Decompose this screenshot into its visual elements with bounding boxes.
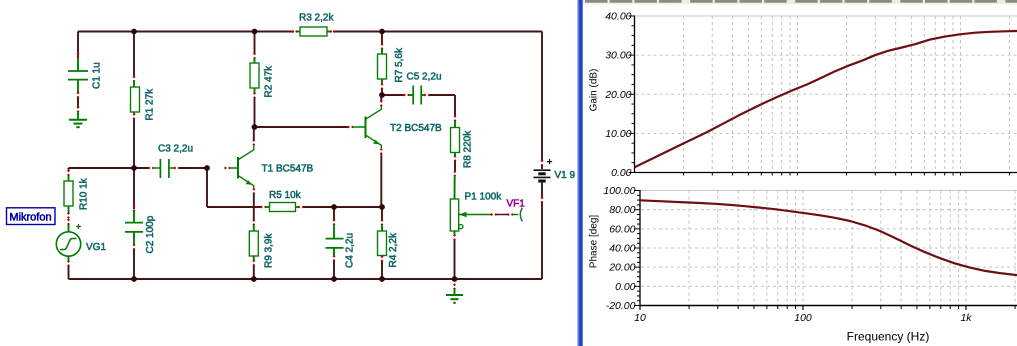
svg-text:T2 BC547B: T2 BC547B	[390, 123, 442, 134]
svg-text:100.00: 100.00	[603, 185, 635, 197]
svg-text:20.00: 20.00	[604, 89, 631, 101]
svg-text:R8 220k: R8 220k	[463, 130, 474, 168]
svg-text:10: 10	[634, 312, 646, 324]
svg-text:R5 10k: R5 10k	[269, 190, 302, 201]
svg-text:C2 100p: C2 100p	[145, 215, 156, 253]
svg-text:0.00: 0.00	[611, 167, 632, 179]
svg-text:Phase [deg]: Phase [deg]	[589, 215, 600, 269]
svg-text:R1 27k: R1 27k	[145, 88, 156, 121]
svg-text:40.00: 40.00	[609, 243, 635, 255]
svg-text:R10 1k: R10 1k	[79, 177, 90, 210]
svg-text:P1 100k: P1 100k	[465, 192, 503, 203]
svg-text:R9 3,9k: R9 3,9k	[264, 233, 275, 268]
svg-text:V1 9: V1 9	[555, 170, 576, 181]
svg-text:10.00: 10.00	[605, 128, 631, 140]
svg-text:T1 BC547B: T1 BC547B	[262, 164, 314, 175]
svg-text:Gain (dB): Gain (dB)	[589, 69, 600, 112]
svg-text:1k: 1k	[960, 312, 972, 324]
svg-text:R7 5,6k: R7 5,6k	[394, 47, 405, 82]
svg-text:C1 1u: C1 1u	[92, 62, 103, 89]
svg-text:R2 47k: R2 47k	[264, 65, 275, 98]
svg-text:R4 2,2k: R4 2,2k	[388, 232, 399, 267]
svg-text:20.00: 20.00	[608, 262, 635, 274]
svg-text:Mikrofon: Mikrofon	[9, 212, 51, 224]
svg-text:-20.00: -20.00	[606, 300, 636, 312]
svg-text:60.00: 60.00	[609, 223, 635, 235]
svg-text:VF1: VF1	[507, 199, 526, 210]
svg-text:30.00: 30.00	[605, 50, 631, 62]
svg-text:C5 2,2u: C5 2,2u	[407, 72, 442, 83]
svg-text:100: 100	[794, 312, 812, 324]
svg-text:0.00: 0.00	[615, 281, 636, 293]
svg-text:C3 2,2u: C3 2,2u	[158, 144, 193, 155]
svg-text:VG1: VG1	[86, 242, 106, 253]
svg-text:Frequency (Hz): Frequency (Hz)	[847, 330, 930, 344]
svg-text:C4 2,2u: C4 2,2u	[345, 233, 356, 268]
svg-text:80.00: 80.00	[609, 204, 635, 216]
svg-text:R3 2,2k: R3 2,2k	[299, 13, 334, 24]
svg-text:40.00: 40.00	[605, 11, 631, 23]
